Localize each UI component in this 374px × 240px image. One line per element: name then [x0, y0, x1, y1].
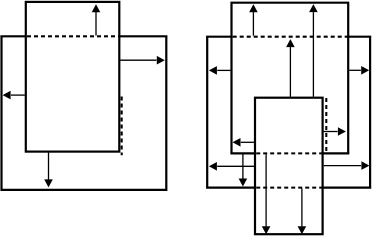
- right figure: window B2 top edge solid right part: [348, 36, 371, 38]
- right figure: window B2 bottom edge solid left part: [206, 187, 255, 189]
- right figure: arrow up from A3 top edge to B2 top edge: [289, 47, 291, 97]
- left figure: window A (tall inner rectangle): [26, 2, 120, 152]
- right figure: arrow down from A2 bottom edge to B2 bottom edge: [242, 154, 244, 178]
- left figure: arrow up from B top edge to A top edge: [95, 12, 97, 36]
- right figure: window B2 top edge solid left part: [206, 36, 231, 38]
- right figure: arrow right from A2 right edge to B2 right edge: [349, 69, 361, 71]
- right figure: arrow down from A2 bottom edge to A3 bottom edge: [265, 154, 267, 226]
- right figure: arrow left from A2 left edge to B2 left edge: [217, 69, 230, 71]
- right figure: window B2 (outer rectangle left and right sides): [207, 37, 370, 188]
- right figure: arrow up from B2 top edge to A2 top edge: [252, 12, 254, 36]
- right figure: window A3 (lower rectangle): [255, 98, 323, 235]
- right figure: arrow right from A3 right edge to B2 right edge: [324, 165, 361, 167]
- right figure: arrow left from A3 left edge to B2 left edge: [217, 165, 254, 167]
- right figure: arrow up from A3 top edge to A2 top edge: [312, 12, 314, 97]
- right figure: arrow right from A3 right edge to A2 right edge: [324, 131, 338, 133]
- left figure: hidden edge (dashed vertical) right of A: [121, 97, 123, 156]
- left figure: window B top edge solid right part: [119, 35, 167, 37]
- right figure: arrow down from B2 bottom edge to A3 bottom edge: [301, 189, 303, 227]
- right figure: window A2 (upper inner rectangle, top/left/right sides): [232, 3, 349, 154]
- left figure: window B (outer rectangle, left/bottom/right sides): [2, 36, 167, 190]
- left figure: arrow right from A right edge to B right edge: [120, 59, 156, 61]
- right figure: window B2 bottom edge hidden (dashed) behind A3: [256, 187, 322, 189]
- right figure: window B2 top edge hidden (dashed) behind A2: [233, 36, 349, 38]
- right figure: window B2 bottom edge solid right part: [323, 187, 372, 189]
- left figure: arrow left from A left edge to B left edge: [11, 94, 25, 96]
- left figure: window B top edge solid left part: [0, 35, 25, 37]
- right figure: arrow left from A3 left edge to A2 left edge: [241, 141, 254, 143]
- right figure: window A2 bottom edge solid right part: [323, 152, 350, 154]
- left figure: arrow down from A bottom edge to B bottom edge: [48, 153, 50, 180]
- right figure: window A2 bottom edge hidden (dashed) behind A3: [256, 152, 322, 154]
- right figure: window A2 bottom edge solid left part: [230, 152, 255, 154]
- left figure: window B top edge hidden (dashed) behind A: [27, 35, 119, 37]
- right figure: hidden edge (dashed vertical) right of A3: [325, 98, 327, 152]
